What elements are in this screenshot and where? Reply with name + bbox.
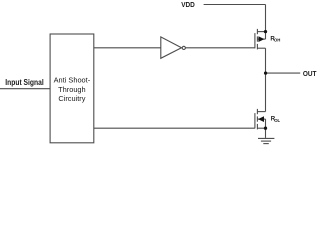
ground bar 1 (258, 137, 274, 139)
transistor Q2 body stub (257, 118, 265, 120)
inverter U2 output bubble (182, 46, 185, 49)
transistor Q1 drain stub (257, 31, 265, 33)
wire box to Q2 gate (94, 127, 255, 129)
transistor Q2 channel segment 2 (256, 116, 258, 121)
svg-text:Anti Shoot-: Anti Shoot- (54, 75, 91, 84)
wire box to inverter (94, 47, 161, 49)
arrow Q2 body (points left) (259, 117, 264, 122)
transistor Q2 channel segment 3 (256, 124, 258, 129)
wire VDD rail down to Q1 body (265, 5, 267, 40)
wire OUT horizontal (266, 72, 301, 74)
transistor Q2 source stub (257, 127, 265, 129)
svg-text:OL: OL (274, 118, 280, 123)
transistor Q1 channel segment 3 (256, 44, 258, 50)
transistor Q2 gate bar (254, 113, 256, 128)
transistor Q1 channel segment 2 (256, 36, 258, 41)
svg-text:OUT: OUT (303, 69, 317, 78)
svg-text:Circuitry: Circuitry (58, 94, 85, 103)
junction dot Q2 source / ground (264, 127, 267, 130)
svg-text:VDD: VDD (181, 2, 195, 9)
transistor Q1 body stub (257, 38, 265, 40)
arrow Q1 body (points right) (259, 37, 264, 42)
wire VDD horizontal (204, 4, 266, 6)
svg-text:Through: Through (58, 85, 86, 94)
wire Q2 body down to source (265, 119, 267, 128)
wire Q1 source down through OUT node to Q2 drain (265, 48, 267, 111)
ground bar 3 (263, 143, 269, 145)
transistor Q1 channel segment 1 (256, 29, 258, 34)
wire input signal (0, 88, 50, 90)
junction dot VDD / Q1 drain (264, 30, 267, 33)
svg-text:Input Signal: Input Signal (5, 78, 43, 87)
junction dot OUT node (264, 71, 267, 74)
ground bar 2 (261, 140, 271, 142)
transistor Q1 source stub (257, 47, 265, 49)
block U1 Anti Shoot-Through Circuitry (50, 34, 94, 143)
transistor Q2 channel segment 1 (256, 109, 258, 114)
wire inverter to Q1 gate (186, 47, 255, 49)
transistor Q1 gate bar (254, 33, 256, 48)
inverter U2 triangle (161, 37, 182, 58)
transistor Q2 drain stub (257, 111, 265, 113)
wire Q2 source down to ground (265, 128, 267, 138)
svg-text:OH: OH (274, 38, 280, 43)
